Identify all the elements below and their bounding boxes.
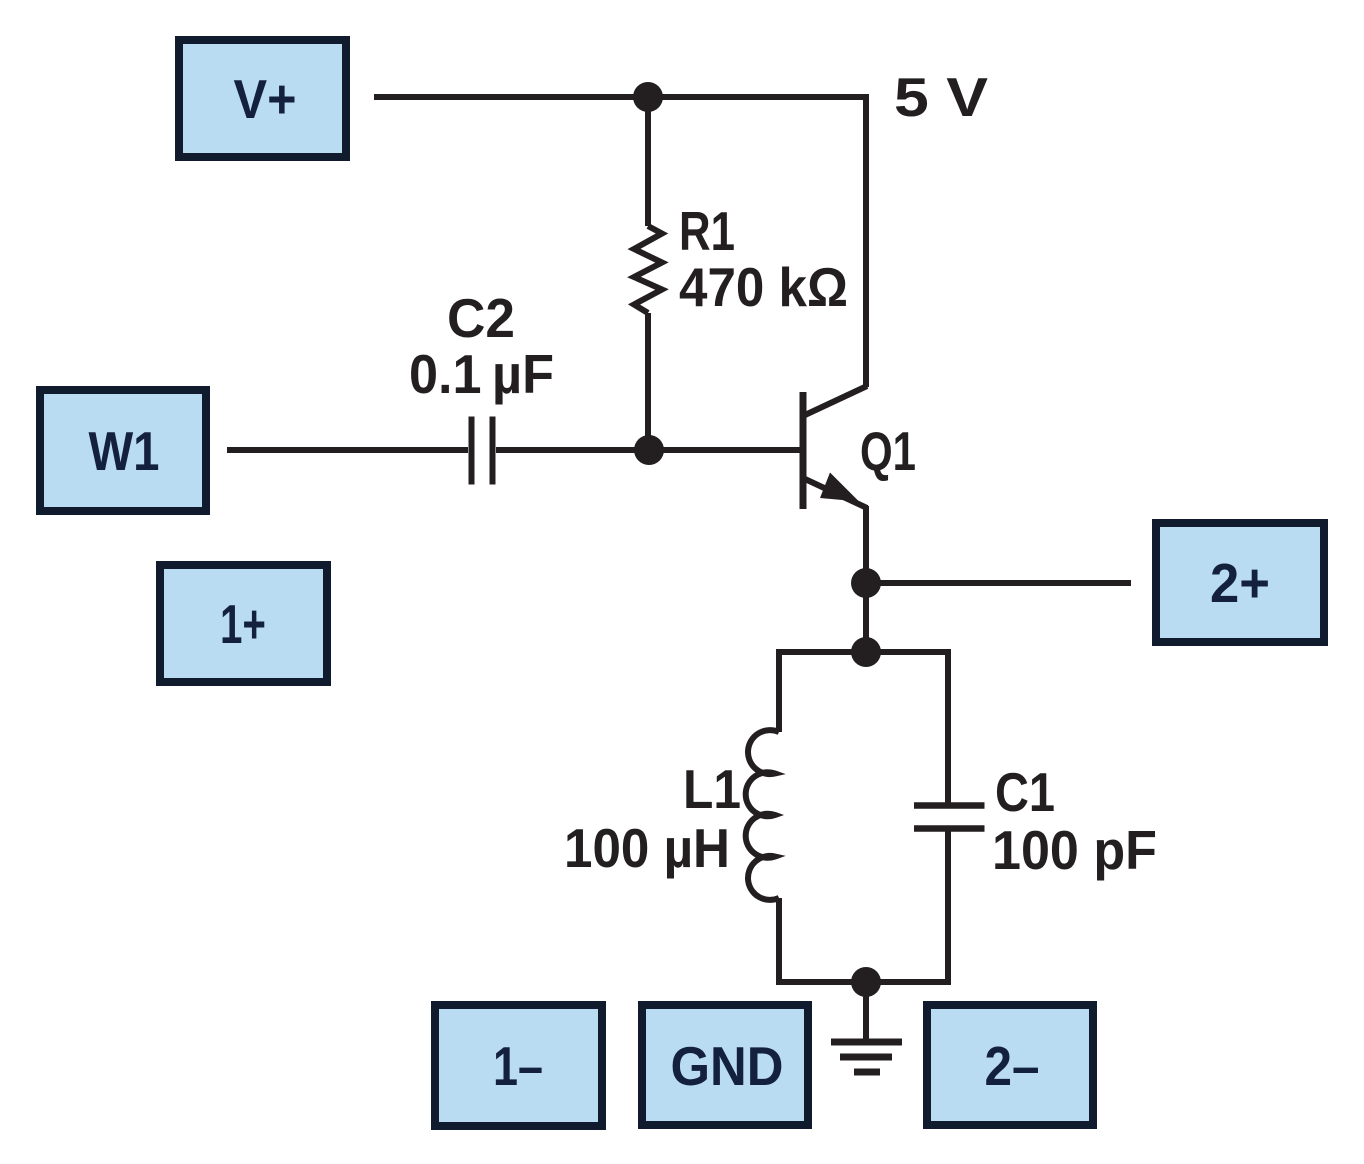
svg-text:R1: R1 [679, 200, 735, 262]
svg-text:0.1 µF: 0.1 µF [409, 343, 554, 405]
terminal box W1 [40, 390, 206, 511]
node A (junction dot on supply rail) [633, 82, 663, 112]
wire V+ to node A [374, 94, 648, 100]
wire node B to Q1 base [649, 447, 800, 453]
svg-text:1+: 1+ [220, 593, 266, 655]
wire node C to node D [863, 583, 869, 652]
node D (tank top junction dot) [851, 637, 881, 667]
inductor L1 [746, 730, 779, 900]
terminal box 2- [927, 1005, 1093, 1125]
svg-text:2+: 2+ [1210, 552, 1270, 614]
transistor Q1 [803, 94, 867, 509]
wire R1 bottom lead to node B [645, 313, 651, 450]
capacitor C1 [914, 806, 985, 829]
svg-text:V+: V+ [234, 68, 297, 130]
svg-text:Q1: Q1 [860, 420, 916, 482]
svg-text:2–: 2– [985, 1035, 1040, 1097]
wire node A to 5V corner (supply rail) [648, 94, 866, 100]
terminal box V+ [179, 40, 346, 157]
svg-text:100 µH: 100 µH [564, 817, 730, 879]
node E (ground junction dot) [851, 967, 881, 997]
wire C2 to node B [496, 447, 649, 453]
svg-text:100 pF: 100 pF [992, 819, 1157, 881]
terminal box 2+ [1156, 523, 1324, 642]
wire tank top rail [776, 649, 948, 655]
svg-text:C2: C2 [447, 287, 515, 349]
terminal box 1+ [160, 565, 327, 682]
svg-text:W1: W1 [89, 420, 160, 482]
wire tank bottom rail [776, 979, 948, 985]
svg-text:1–: 1– [493, 1035, 543, 1097]
wire R1 top lead [645, 97, 651, 226]
wire W1 to C2 [227, 447, 468, 453]
terminal box 1- [435, 1005, 602, 1126]
wire node C to 2+ [866, 580, 1131, 586]
wire C1 top lead [945, 649, 951, 803]
node B (base junction dot) [634, 435, 664, 465]
svg-text:5 V: 5 V [894, 66, 988, 128]
wire C1 bottom lead [945, 832, 951, 986]
svg-text:L1: L1 [683, 758, 741, 820]
wire L1 top lead [776, 649, 782, 732]
svg-text:C1: C1 [995, 761, 1055, 823]
terminal box GND [642, 1005, 808, 1125]
wire Q1 emitter to node C [863, 506, 869, 583]
resistor R1 [634, 226, 662, 313]
node C (emitter junction dot) [851, 568, 881, 598]
wire L1 bottom lead [776, 898, 782, 985]
svg-text:470 kΩ: 470 kΩ [679, 256, 848, 318]
svg-text:GND: GND [671, 1035, 784, 1097]
capacitor C2 [472, 417, 493, 485]
wire ground stem [863, 982, 869, 1042]
ground [831, 1042, 902, 1072]
